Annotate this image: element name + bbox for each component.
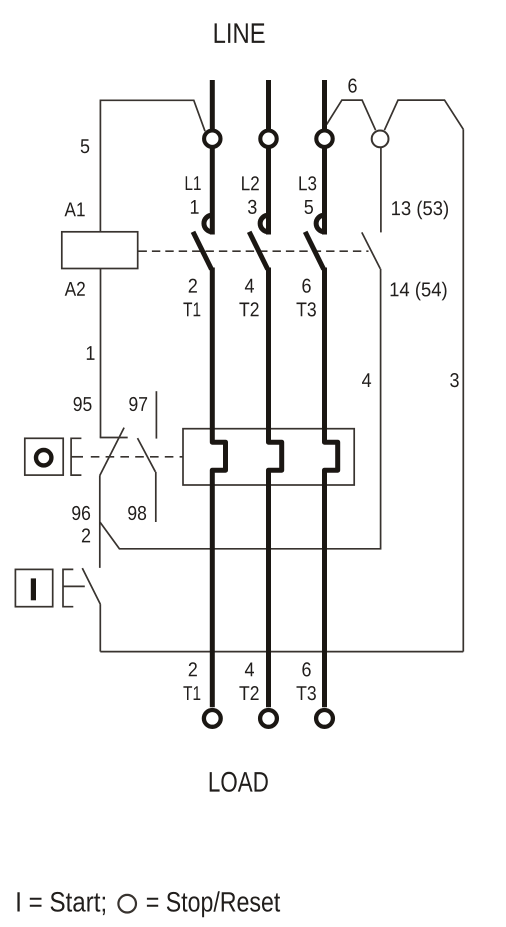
main contact fixed hook pole L2 bbox=[260, 215, 268, 232]
main contact blade pole L2 bbox=[249, 232, 268, 269]
terminal circle for wire 6 (start circuit supply) bbox=[372, 131, 389, 148]
node 6 label bbox=[348, 79, 356, 93]
pin 1 label bbox=[191, 200, 199, 214]
start pushbutton head (I) bbox=[15, 569, 52, 606]
pin 96 label bbox=[72, 506, 90, 520]
pin 4 label (lower) bbox=[245, 663, 254, 677]
pole L1 supply stub bbox=[210, 80, 215, 131]
terminal T1 load-side circle bbox=[204, 710, 221, 727]
net L2 label bbox=[242, 176, 259, 190]
wire aux contact 13 upper lead bbox=[380, 147, 382, 232]
aux pin 14 (54) label bbox=[391, 282, 447, 301]
terminal T3 load-side circle bbox=[316, 710, 333, 727]
pin 2 label (lower) bbox=[189, 662, 197, 676]
net T2 label (upper) bbox=[239, 302, 258, 316]
pole L3 supply stub bbox=[322, 80, 327, 131]
pole L2 supply stub bbox=[266, 80, 271, 131]
contactor coil A1-A2 bbox=[62, 232, 138, 269]
aux contact 13-14 blade (NO) bbox=[362, 232, 381, 268]
terminal L2 line-side circle bbox=[260, 131, 276, 147]
terminal T2 load-side circle bbox=[260, 710, 277, 727]
wire 6: tap from L3 to stop/start circuit terminal bbox=[327, 100, 376, 130]
terminal L3 line-side circle bbox=[316, 131, 332, 147]
net T3 label (upper) bbox=[297, 302, 316, 316]
pole L2 upper conductor (pin 3) bbox=[266, 148, 271, 234]
pin 4 label (upper) bbox=[245, 279, 254, 293]
pole L3 upper conductor (pin 5) bbox=[322, 148, 327, 234]
pin 97 label bbox=[129, 397, 147, 411]
mechanical link (dashed) stop button to contacts bbox=[71, 456, 183, 458]
wire from aux terminal to right rail (node 3) bbox=[384, 100, 463, 130]
wire aux contact 14 lower lead / node 4 bbox=[100, 269, 381, 549]
net T1 label (lower) bbox=[183, 686, 200, 700]
coil pin A1 label bbox=[65, 203, 85, 217]
main contact fixed hook pole L1 bbox=[204, 215, 212, 232]
label LINE bbox=[215, 23, 265, 43]
mechanical link (dashed) coil to contacts bbox=[139, 250, 369, 252]
wire bottom control run bbox=[100, 651, 463, 653]
node 4 label bbox=[362, 373, 371, 387]
node 3 label bbox=[450, 373, 459, 387]
pin 3 label bbox=[248, 200, 257, 214]
legend caption: = Stop/Reset bbox=[147, 891, 280, 917]
net T3 label (lower) bbox=[297, 686, 316, 700]
net L3 label bbox=[299, 176, 316, 190]
pole L1 upper conductor (pin 1) bbox=[210, 148, 215, 234]
terminal L1 line-side circle bbox=[204, 131, 220, 147]
stop contact fixed bar 95 bbox=[100, 437, 128, 439]
pin 5 label bbox=[305, 200, 314, 214]
wire right rail 3 bbox=[462, 129, 464, 651]
aux pin 13 (53) label bbox=[392, 201, 448, 220]
wire 5: tap from L1 terminal to coil A1 bbox=[100, 100, 205, 232]
wire start contact to bottom run bbox=[99, 604, 101, 652]
stop pushbutton head (O) bbox=[25, 438, 63, 475]
pin 6 label (upper) bbox=[302, 279, 310, 293]
legend caption: I = Start bbox=[17, 892, 105, 915]
overload alarm contact 97 upper stub bbox=[155, 391, 157, 438]
overload relay box bbox=[183, 429, 354, 485]
wire 1: coil A2 to stop contact 95 bbox=[100, 269, 102, 438]
stop contact blade (NC 95-96) bbox=[100, 428, 124, 476]
overload alarm contact 98 lower stub bbox=[155, 472, 157, 522]
pin 6 label (lower) bbox=[302, 662, 310, 676]
main contact blade pole L3 bbox=[305, 232, 324, 269]
coil pin A2 label bbox=[65, 282, 85, 296]
pin 2 label (upper) bbox=[189, 279, 197, 293]
legend stop symbol circle bbox=[118, 895, 136, 913]
node 5 label bbox=[81, 139, 90, 153]
net T2 label (lower) bbox=[239, 686, 258, 700]
start contact blade (NO) bbox=[82, 568, 100, 604]
start pushbutton actuator bracket bbox=[63, 569, 85, 606]
pole L2 lower conductor with overload heater (pin 4/T2) bbox=[269, 268, 282, 708]
overload alarm contact blade (NO 97-98) bbox=[138, 438, 156, 472]
main contact blade pole L1 bbox=[193, 232, 212, 269]
node 2 label bbox=[82, 528, 90, 542]
wire 96 to node 2 and start contact bbox=[99, 476, 101, 568]
node 1 label bbox=[87, 346, 95, 360]
pole L3 lower conductor with overload heater (pin 6/T3) bbox=[325, 268, 338, 708]
stop pushbutton actuator bracket bbox=[71, 438, 81, 475]
main contact fixed hook pole L3 bbox=[316, 215, 324, 232]
net L1 label bbox=[186, 176, 201, 190]
pole L1 lower conductor with overload heater (pin 2/T1) bbox=[212, 268, 225, 708]
net T1 label (upper) bbox=[183, 303, 200, 317]
label LOAD bbox=[210, 772, 268, 792]
pin 98 label bbox=[128, 506, 146, 520]
pin 95 label bbox=[74, 397, 92, 411]
